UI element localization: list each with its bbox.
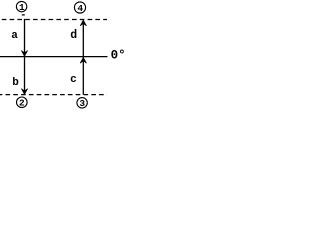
arrowhead b (down, at bottom dashed line) [21, 89, 27, 95]
middle solid line (0 degree axis) [0, 56, 108, 58]
svg-text:0°: 0° [111, 48, 125, 62]
small mark below node 1 circle [22, 14, 25, 16]
node 4 circle [74, 2, 85, 13]
node 3 circle [77, 98, 87, 108]
node 1 circle [16, 1, 26, 11]
svg-text:4: 4 [77, 3, 83, 14]
left vertical wire [24, 19, 26, 95]
bottom dashed line [0, 94, 107, 96]
right vertical wire [82, 20, 84, 94]
arrowhead d (up, at top dashed line) [80, 20, 86, 26]
node 2 circle [17, 97, 28, 108]
svg-text:a: a [11, 30, 18, 42]
arrowhead a (down, at middle line) [21, 51, 27, 57]
top dashed line [0, 19, 107, 21]
svg-text:b: b [12, 77, 19, 89]
svg-text:d: d [70, 29, 77, 42]
svg-text:c: c [70, 74, 77, 86]
svg-text:3: 3 [79, 98, 85, 109]
svg-text:1: 1 [19, 2, 25, 13]
svg-text:2: 2 [19, 98, 25, 109]
arrowhead c (up, at middle line) [80, 57, 86, 63]
